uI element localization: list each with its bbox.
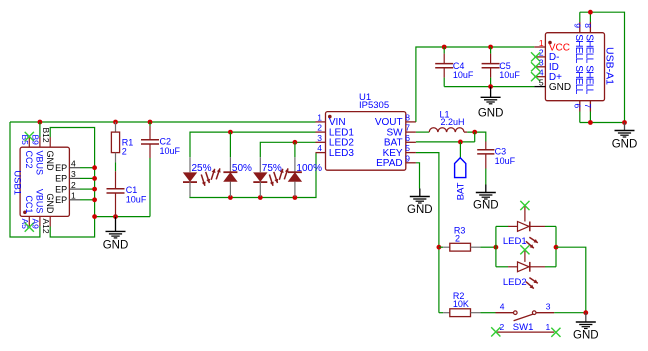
node EP1 junction <box>92 197 97 202</box>
svg-text:1: 1 <box>546 322 551 332</box>
LED 25% charge indicator <box>189 157 191 172</box>
pin 3 LED2 of U1 <box>316 141 326 143</box>
ground GND5 (USB shell) <box>612 123 638 151</box>
resistor R2 10K <box>439 312 443 314</box>
LED LED2 <box>496 266 508 268</box>
pin A5 (CC1) of USB1 <box>28 216 30 226</box>
wire U1 pin2 (LED1 net) to 25%/50% LEDs <box>190 132 316 157</box>
svg-text:3: 3 <box>317 133 322 143</box>
node SW/C3 junction <box>472 130 477 135</box>
svg-text:8: 8 <box>583 23 593 28</box>
svg-text:EP: EP <box>55 174 67 184</box>
U1 first pin marker <box>328 115 332 119</box>
node LED pair right <box>554 245 559 250</box>
LED LED1 <box>496 225 508 227</box>
wire shell top to rail <box>579 12 581 22</box>
wire BAT pin to junction <box>416 141 475 143</box>
pin 3 of SW1 <box>536 312 554 314</box>
node EP-rail/GND junction <box>92 214 97 219</box>
svg-text:GND: GND <box>45 151 55 172</box>
node C5 top junction <box>488 45 493 50</box>
svg-text:1: 1 <box>71 191 76 201</box>
svg-text:4: 4 <box>317 143 322 153</box>
capacitor C5 10uF <box>490 47 492 54</box>
pin 4 LED3 of U1 <box>316 152 326 154</box>
svg-text:GND: GND <box>549 82 571 93</box>
svg-text:VBUS: VBUS <box>35 151 45 176</box>
svg-text:25%: 25% <box>192 163 212 174</box>
svg-text:SHELL: SHELL <box>573 34 584 63</box>
wire A12 to bottom rail <box>50 217 94 237</box>
wire VOUT up to 5V rail <box>416 47 534 122</box>
node C4 top junction <box>442 45 447 50</box>
pin B12 (GND) of USB1 <box>49 137 51 147</box>
wire B9 to top rail <box>39 122 41 137</box>
wire R1 to C1 <box>115 162 117 171</box>
svg-text:10uF: 10uF <box>499 70 520 80</box>
switch SW1 <box>496 312 514 314</box>
pin EP 3 of USB1 <box>69 177 80 179</box>
pin 7 SHELL bottom of USB-A1 <box>589 101 591 112</box>
wire SW1 pin3 to GND node <box>554 312 586 314</box>
LED emission arrows (down-right) <box>201 175 205 186</box>
svg-text:2: 2 <box>122 147 127 157</box>
svg-text:10uF: 10uF <box>126 194 147 204</box>
USB-A1 first pin marker <box>548 41 552 45</box>
svg-text:4: 4 <box>500 302 505 312</box>
wire junction down to BAT line <box>474 132 476 142</box>
svg-text:CC2: CC2 <box>24 151 34 169</box>
wire LED pair left branch <box>495 226 497 266</box>
resistor R3 <box>439 246 443 248</box>
wire EP to rail <box>80 188 95 190</box>
pin B5 (CC2) of USB1 <box>28 137 30 147</box>
pin 7 SW of U1 <box>406 131 416 133</box>
svg-text:EP: EP <box>55 163 67 173</box>
capacitor C2 10uF <box>149 122 151 126</box>
svg-text:USB1: USB1 <box>12 170 23 195</box>
svg-text:6: 6 <box>405 133 410 143</box>
no-connect X on B5 <box>25 132 34 141</box>
wire shell bottom to rail <box>579 112 581 123</box>
svg-text:A12: A12 <box>41 219 51 234</box>
pin 2 LED1 of U1 <box>316 131 326 133</box>
ground GND4 (output caps) <box>478 87 504 120</box>
wire EP to rail <box>80 167 95 169</box>
svg-text:1: 1 <box>539 38 544 48</box>
svg-text:B12: B12 <box>41 128 51 143</box>
wire: main VBUS top rail <box>10 121 316 123</box>
svg-text:VBUS: VBUS <box>35 189 45 214</box>
node EP4 junction <box>92 165 97 170</box>
wire EP to rail <box>80 177 95 179</box>
pin 5 KEY of U1 <box>406 152 416 154</box>
svg-text:3: 3 <box>546 302 551 312</box>
svg-text:SW1: SW1 <box>513 322 534 333</box>
resistor R1 <box>115 122 117 132</box>
node R3 junction <box>437 245 442 250</box>
node LED bottom rail junction <box>228 195 233 200</box>
wire B12 up/right/down to EP rail <box>50 128 94 217</box>
ground GND1 (main input) <box>103 217 129 251</box>
pin 3 ID of USB-A1 <box>534 66 545 68</box>
wire EP to rail <box>80 199 95 201</box>
pin 8 SHELL top of USB-A1 <box>589 22 591 33</box>
svg-text:6: 6 <box>573 104 583 109</box>
node 50% LED junction <box>228 130 233 135</box>
svg-text:10uF: 10uF <box>160 146 181 156</box>
pin B9 (VBUS) of USB1 <box>39 137 41 147</box>
pin 1 VIN of U1 <box>316 121 326 123</box>
op-chip U1 IP5305 body <box>326 112 406 171</box>
wire shell bottom rail <box>580 122 625 124</box>
pin A12 (GND) of USB1 <box>49 216 51 226</box>
wire 100% LED drop <box>294 142 296 157</box>
no-connect X pin1 of SW1 <box>551 328 560 337</box>
LED emission arrows (up-right) <box>211 169 215 180</box>
svg-text:LED3: LED3 <box>329 148 354 159</box>
no-connect X pin 4 <box>531 72 540 81</box>
LED emission arrows (up-right) <box>279 169 283 180</box>
SW1 lever <box>514 314 534 321</box>
netport BAT <box>455 158 466 178</box>
connector USB1 body <box>20 147 69 216</box>
svg-text:EP: EP <box>55 195 67 205</box>
node pin8 top junction <box>588 10 593 15</box>
wire down to BAT port <box>459 142 461 158</box>
svg-text:GND: GND <box>612 139 638 151</box>
svg-text:10uF: 10uF <box>495 156 516 166</box>
node EP2 junction <box>92 187 97 192</box>
pin 6 SHELL bottom of USB-A1 <box>579 101 581 112</box>
node C1/GND junction <box>113 214 118 219</box>
svg-text:EPAD: EPAD <box>376 158 403 169</box>
pin 8 VOUT of U1 <box>406 121 416 123</box>
svg-text:2: 2 <box>455 234 460 244</box>
svg-text:LED1: LED1 <box>503 236 527 247</box>
node 100% LED junction <box>293 140 298 145</box>
pin EP 1 of USB1 <box>69 199 80 201</box>
pin 9 EPAD of U1 <box>406 162 416 164</box>
wire KEY down the left of button area <box>416 153 439 313</box>
emission arrows of LED2 <box>529 278 537 284</box>
node LED bottom rail junction <box>293 195 298 200</box>
node pin7 bottom junction <box>588 120 593 125</box>
node BAT port junction <box>458 140 463 145</box>
capacitor C1 10uF <box>115 171 117 189</box>
svg-text:8: 8 <box>405 112 410 122</box>
svg-text:SHELL: SHELL <box>584 34 595 63</box>
pin 6 BAT of U1 <box>406 141 416 143</box>
svg-text:GND: GND <box>45 193 55 214</box>
wire LED bottom rail to U1 pin4 (LED3 net) <box>190 153 316 198</box>
svg-text:C2: C2 <box>160 136 172 146</box>
svg-text:2: 2 <box>317 123 322 133</box>
pin 5 GND of USB-A1 <box>534 86 545 88</box>
no-connect pin of LED2 <box>524 250 526 262</box>
wire U1 pin3 (LED2 net) to 75%/100% LEDs <box>260 142 315 157</box>
svg-text:100%: 100% <box>296 163 322 174</box>
pin 1 VCC of USB-A1 <box>534 46 545 48</box>
wire: left VBUS loop to USB1 A9 <box>10 122 40 237</box>
svg-text:SHELL: SHELL <box>584 65 595 94</box>
svg-text:2: 2 <box>500 322 505 332</box>
node: R1 junction on top rail <box>113 120 118 125</box>
node: C2 junction on top rail <box>148 120 153 125</box>
node LED bottom rail junction <box>258 195 263 200</box>
svg-text:GND: GND <box>473 200 499 212</box>
svg-text:IP5305: IP5305 <box>359 100 389 111</box>
svg-text:2.2uH: 2.2uH <box>441 117 465 127</box>
svg-text:SHELL: SHELL <box>573 65 584 94</box>
svg-text:USB-A1: USB-A1 <box>604 47 616 85</box>
connector USB-A1 body <box>545 33 604 101</box>
no-connect X pin 2 <box>531 52 540 61</box>
svg-text:2: 2 <box>71 180 76 190</box>
no-connect X pin2 of SW1 <box>491 327 500 336</box>
capacitor C4 10uF <box>443 47 445 54</box>
svg-text:BAT: BAT <box>456 182 467 200</box>
svg-text:9: 9 <box>405 153 410 163</box>
pin EP 4 of USB1 <box>69 167 80 169</box>
LED emission arrows (down-right) <box>269 175 273 186</box>
LED 50% charge indicator <box>229 157 231 172</box>
svg-text:5: 5 <box>539 77 544 87</box>
svg-text:GND: GND <box>573 329 599 341</box>
svg-text:50%: 50% <box>232 163 252 174</box>
no-connect X on A5 <box>25 223 34 232</box>
wire R3 to LED pair <box>480 246 496 248</box>
svg-text:GND: GND <box>103 239 129 251</box>
pin 9 SHELL top of USB-A1 <box>579 22 581 33</box>
node C5 bottom / GND junction <box>488 84 493 89</box>
svg-text:1: 1 <box>317 112 322 122</box>
ground GND2 (EPAD) <box>407 189 433 216</box>
svg-text:7: 7 <box>583 104 593 109</box>
wire 50% LED drop <box>229 132 231 157</box>
svg-text:4: 4 <box>71 159 76 169</box>
SW1 unused contacts bar <box>497 331 554 333</box>
wire R2 to SW1 <box>480 312 495 314</box>
svg-text:5: 5 <box>405 143 410 153</box>
svg-text:CC1: CC1 <box>24 195 34 213</box>
wire cap bottoms to USB-A1 GND pin <box>444 86 534 88</box>
wire EPAD to ground <box>416 163 420 189</box>
connector USB1 first pin marker <box>23 211 27 215</box>
node EP3 junction <box>92 176 97 181</box>
svg-text:B9: B9 <box>31 135 41 146</box>
svg-text:A9: A9 <box>31 219 41 230</box>
svg-text:EP: EP <box>55 184 67 194</box>
wire shell bottom to rail <box>589 112 591 123</box>
wire LED pair to switch node <box>556 247 586 313</box>
pin EP 2 of USB1 <box>69 188 80 190</box>
wire LED pair right branch <box>555 226 557 266</box>
ground GND3 (C3) <box>473 185 499 212</box>
inductor L1 2.2uH <box>416 131 429 133</box>
node switch/GND junction <box>583 310 588 315</box>
wire shell top to rail <box>589 12 591 22</box>
pin 4 D+ of USB-A1 <box>534 76 545 78</box>
node shell rail corner junction <box>622 120 627 125</box>
capacitor C3 10uF <box>485 142 487 150</box>
pin 2 D- of USB-A1 <box>534 56 545 58</box>
wire L1 to SW/BAT node <box>467 132 486 141</box>
svg-text:7: 7 <box>405 123 410 133</box>
svg-text:LED2: LED2 <box>503 277 527 288</box>
svg-text:9: 9 <box>573 23 583 28</box>
no-connect X pin 3 <box>531 62 540 71</box>
svg-text:GND: GND <box>478 108 504 120</box>
pin A9 (VBUS) of USB1 <box>39 216 41 226</box>
svg-text:10uF: 10uF <box>453 70 474 80</box>
node: B9 junction on top rail <box>38 120 43 125</box>
LED 75% charge indicator <box>259 157 261 172</box>
ground GND6 (switch) <box>573 313 599 342</box>
no-connect pin of LED1 <box>524 206 526 222</box>
svg-text:GND: GND <box>407 204 433 216</box>
LED 100% charge indicator <box>294 157 296 172</box>
wire shell top rail <box>580 12 625 122</box>
wire GND spur (EP rail to C2 bottom) <box>95 216 150 218</box>
emission arrows of LED1 <box>529 237 537 243</box>
svg-text:3: 3 <box>71 169 76 179</box>
svg-text:75%: 75% <box>262 163 282 174</box>
node LED pair left <box>494 245 499 250</box>
svg-text:10K: 10K <box>453 299 469 309</box>
